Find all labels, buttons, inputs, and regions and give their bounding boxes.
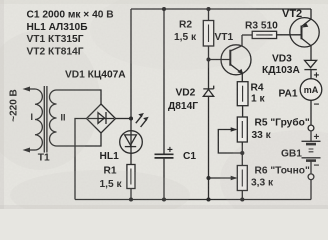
wire base node to VT1 base bbox=[209, 59, 231, 61]
bridge rectifier VD1 diamond bbox=[87, 104, 116, 133]
transformer core bbox=[44, 86, 47, 153]
wire VD2 anode down to bottom rail bbox=[208, 96, 210, 199]
wire battery to terminal2 bbox=[310, 161, 312, 174]
wire top-left vertical to bridge plus node bbox=[130, 9, 132, 119]
bridge VD1 inner diode bbox=[88, 112, 114, 124]
node bridge plus junction bbox=[129, 116, 133, 120]
node R6 wiper tap bbox=[206, 176, 210, 180]
resistor R4 bbox=[237, 82, 248, 106]
wire bottom rail bbox=[75, 199, 311, 201]
node C1 top bbox=[162, 7, 166, 11]
meter PA1 bbox=[300, 79, 322, 101]
wire bridge minus: left vertex down to bottom rail bbox=[75, 119, 87, 200]
transistor VT1 bbox=[221, 35, 251, 82]
node VT1 base tap bbox=[206, 57, 210, 61]
wire R4 to R5 bbox=[242, 106, 244, 117]
node C1 bottom bbox=[162, 197, 166, 201]
terminal X1 bbox=[308, 125, 314, 131]
potentiometer R5 bbox=[218, 117, 247, 153]
wire PA1 to terminal bbox=[310, 100, 312, 125]
wire R6 to bottom rail bbox=[241, 191, 243, 200]
node R1 bottom bbox=[129, 197, 133, 201]
diode VD3 bbox=[304, 60, 316, 69]
wire secondary top to bridge top vertex bbox=[57, 90, 102, 104]
resistor R1 bbox=[127, 165, 135, 189]
resistor R3 bbox=[242, 31, 301, 38]
wire bridge right vertex to node bbox=[116, 118, 132, 120]
wire top rail bbox=[131, 8, 311, 10]
node R2 top bbox=[206, 7, 210, 11]
wire R2 to base node bbox=[208, 46, 210, 89]
potentiometer R6 bbox=[209, 166, 248, 191]
wire C1 branch upper bbox=[163, 9, 165, 154]
terminal X2 bbox=[308, 174, 314, 180]
LED HL1 bbox=[120, 113, 149, 153]
wire C1 branch lower bbox=[163, 159, 165, 200]
wire VD3 to PA1 bbox=[310, 69, 312, 79]
wire R1 to bottom rail bbox=[130, 189, 132, 200]
node VD2 line at bottom rail bbox=[206, 197, 210, 201]
wire terminal to battery bbox=[310, 131, 312, 141]
transformer T1 primary winding I bbox=[23, 87, 43, 153]
wire LED to R1 bbox=[130, 153, 132, 165]
wire node to LED bbox=[130, 119, 132, 132]
capacitor C1 bbox=[155, 154, 174, 158]
transistor VT2 bbox=[290, 9, 319, 60]
wire secondary bottom to bridge bottom vertex bbox=[57, 133, 102, 146]
battery GB1 bbox=[302, 141, 321, 160]
wire terminal2 to bottom rail bbox=[310, 180, 312, 200]
transformer T1 secondary winding II bbox=[50, 90, 57, 146]
node R6 bottom bbox=[240, 197, 244, 201]
node R5 bottom junction bbox=[240, 151, 244, 155]
wire R5 to R6 bbox=[241, 142, 243, 166]
zener VD2 bbox=[203, 86, 213, 97]
wire R2 branch top bbox=[208, 9, 210, 21]
resistor R2 bbox=[203, 21, 213, 47]
